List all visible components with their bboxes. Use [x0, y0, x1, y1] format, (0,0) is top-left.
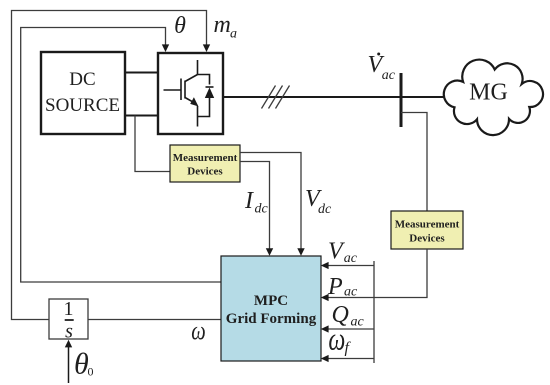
svg-text:SOURCE: SOURCE	[45, 95, 120, 116]
IGBT collector lead	[197, 60, 199, 75]
wire: Q_ac reference into MPC	[327, 328, 375, 330]
wire: omega from MPC to 1/s	[88, 319, 221, 321]
svg-text:MG: MG	[469, 80, 508, 106]
MPC grid forming block	[221, 256, 321, 361]
wire: AC line from inverter to MG	[223, 96, 444, 98]
svg-text:ω: ω	[328, 321, 345, 358]
svg-text:Devices: Devices	[409, 233, 445, 245]
svg-text:P: P	[327, 274, 343, 300]
wire: P_ac from measurement (AC) to MPC	[327, 249, 428, 298]
diode branch bottom wire	[198, 98, 210, 117]
svg-text:1: 1	[64, 298, 74, 320]
inverter U1 box	[158, 53, 223, 134]
arrowhead I_dc	[266, 248, 273, 256]
IGBT gate bar	[180, 79, 182, 101]
wire: V_ac reference into MPC	[327, 265, 375, 267]
svg-text:MPC: MPC	[254, 293, 288, 309]
svg-text:dc: dc	[255, 202, 269, 217]
wire: m_a feedback loop (1/s input to inverter top)	[12, 11, 207, 320]
svg-text:s: s	[65, 321, 73, 343]
wire: I_dc from measurement to MPC	[240, 162, 270, 251]
MG cloud	[444, 60, 543, 136]
svg-text:θ: θ	[174, 13, 186, 39]
svg-text:ac: ac	[382, 68, 396, 83]
arrowhead m_a into inverter	[203, 44, 210, 52]
diode cathode bar	[206, 86, 214, 88]
svg-text:m: m	[214, 12, 231, 38]
DC source block	[41, 52, 125, 134]
wire: DC bus upper line	[125, 72, 158, 74]
IGBT gate lead	[164, 89, 182, 91]
IGBT emitter angled line with arrow	[185, 98, 194, 103]
diode branch top wire	[198, 75, 210, 85]
diode D1 triangle	[205, 88, 214, 99]
arrowhead omega_f	[321, 355, 329, 362]
integrator 1/s block	[49, 298, 88, 343]
svg-text:ac: ac	[351, 315, 365, 330]
arrowhead Q_ac	[321, 325, 329, 332]
arrowhead theta into inverter	[162, 44, 169, 52]
svg-text:ac: ac	[344, 285, 358, 300]
arrowhead V_ac	[321, 262, 329, 269]
svg-text:V: V	[328, 239, 345, 265]
wire: theta_0 initial condition	[68, 347, 70, 383]
wire: theta feedback loop (MPC left to inverter top)	[21, 28, 221, 283]
svg-text:ac: ac	[344, 251, 358, 266]
svg-text:Devices: Devices	[187, 166, 223, 178]
wire: tap from DC bus to measurement devices	[135, 116, 170, 172]
IGBT collector angled line	[185, 75, 198, 82]
three-phase slash 2	[269, 86, 283, 109]
svg-text:a: a	[230, 27, 237, 42]
arrowhead P_ac	[321, 294, 329, 301]
arrowhead theta_0	[65, 340, 72, 348]
svg-text:Grid Forming: Grid Forming	[226, 311, 317, 327]
svg-text:Measurement: Measurement	[173, 152, 238, 164]
wire: omega_f reference into MPC	[327, 358, 375, 360]
IGBT emitter lead	[197, 106, 199, 127]
IGBT body bar	[184, 81, 186, 99]
svg-text:I: I	[244, 188, 254, 214]
wire: DC bus lower line	[125, 115, 158, 117]
measurement devices box (AC side)	[391, 211, 463, 249]
svg-text:DC: DC	[69, 69, 95, 90]
reference signal bus	[373, 261, 375, 363]
three-phase slash 3	[276, 86, 290, 109]
svg-text:ω: ω	[191, 317, 205, 346]
three-phase slash 1	[262, 86, 276, 109]
arrowhead V_dc	[297, 248, 304, 256]
svg-text:dc: dc	[318, 202, 332, 217]
svg-text:0: 0	[88, 365, 94, 379]
wire: V_dc from measurement to MPC	[240, 153, 301, 251]
wire: AC bus to measurement devices (grid side)	[401, 113, 427, 212]
svg-text:Measurement: Measurement	[395, 219, 460, 231]
measurement devices box (DC side)	[170, 145, 240, 182]
AC bus bar	[400, 73, 403, 127]
